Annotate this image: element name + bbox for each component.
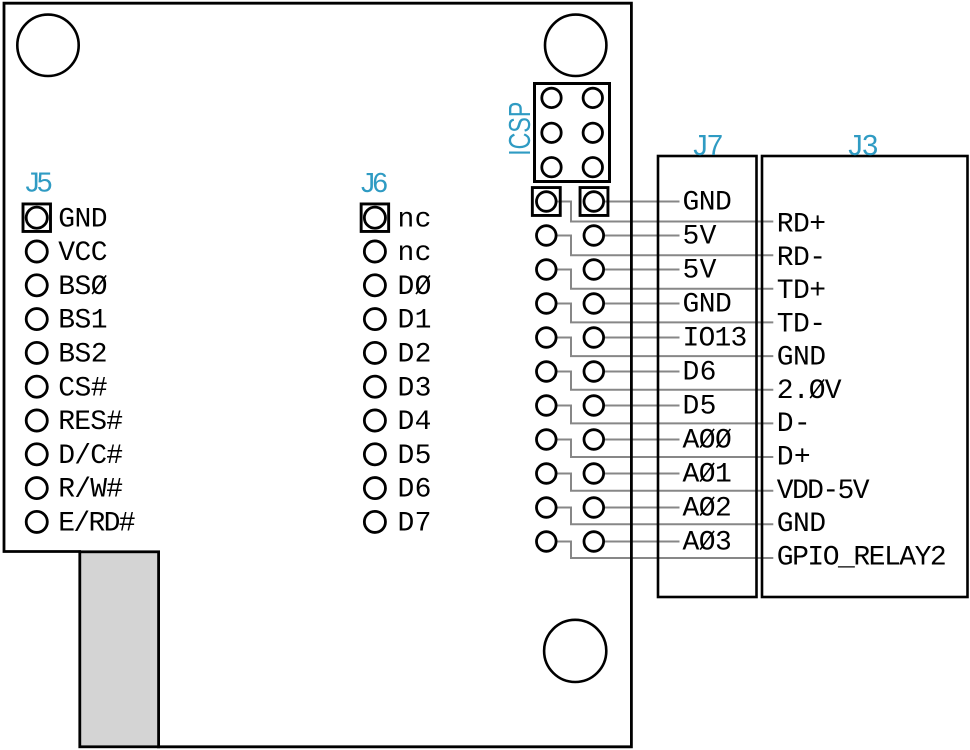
wire header right pin row 1 to J7 net GND — [605, 201, 680, 203]
header right pin row 7 — [584, 396, 604, 416]
J5 pin 5 — [26, 342, 47, 363]
J6 pin 9 — [364, 478, 385, 499]
svg-text:5V: 5V — [683, 221, 717, 252]
svg-text:D5: D5 — [398, 441, 432, 472]
header left pin row 4 — [537, 294, 557, 314]
J5 pin 2 — [26, 241, 47, 262]
svg-text:D+: D+ — [777, 443, 811, 474]
wire header right pin row 4 to J7 net GND — [605, 303, 680, 305]
svg-text:GPIO_RELAY2: GPIO_RELAY2 — [777, 543, 947, 574]
svg-text:GND: GND — [777, 509, 826, 540]
svg-text:D6: D6 — [683, 357, 717, 388]
header left pin row 6 — [537, 362, 557, 382]
J6 pin 3 — [364, 275, 385, 296]
svg-text:D5: D5 — [683, 391, 717, 422]
svg-text:J3: J3 — [848, 130, 878, 162]
svg-text:J5: J5 — [26, 167, 53, 198]
mounting hole top-middle — [545, 15, 606, 76]
wire header left pin row 10 to J3 net GND — [558, 508, 774, 525]
wire header right pin row 11 to J7 net A03 — [605, 541, 680, 543]
svg-text:D1: D1 — [398, 306, 432, 337]
ICSP pin 2 — [583, 88, 602, 107]
wire header left pin row 8 to J3 net D+ — [558, 440, 774, 458]
board edge connector tab — [80, 552, 159, 747]
header left pin row 5 — [537, 328, 557, 348]
wire header left pin row 1 to J3 net RD+ — [558, 202, 774, 222]
wire header right pin row 3 to J7 net 5V — [605, 269, 680, 271]
svg-text:D4: D4 — [398, 407, 432, 438]
svg-text:R/W#: R/W# — [58, 475, 123, 506]
J5 pin 4 — [26, 309, 47, 330]
svg-text:BSØ: BSØ — [58, 272, 107, 303]
J6 pin 7 — [364, 410, 385, 431]
wire header right pin row 9 to J7 net A01 — [605, 473, 680, 475]
header right pin row 4 — [584, 294, 604, 314]
J6 pin 4 — [364, 309, 385, 330]
ICSP pin 5 — [542, 158, 561, 177]
wire header left pin row 5 to J3 net GND — [558, 338, 774, 357]
ICSP pin 3 — [542, 123, 561, 142]
header left pin row 10 — [537, 498, 557, 518]
connector J7 box — [658, 156, 757, 597]
mounting hole top-left — [17, 15, 78, 76]
svg-text:CS#: CS# — [58, 373, 107, 404]
svg-text:5V: 5V — [683, 255, 717, 286]
svg-text:J7: J7 — [693, 130, 723, 162]
J5 pin 3 — [26, 275, 47, 296]
svg-text:GND: GND — [683, 187, 732, 218]
J6 pin 2 — [364, 241, 385, 262]
svg-text:BS2: BS2 — [58, 340, 107, 371]
header right pin row 6 — [584, 362, 604, 382]
mounting hole bottom — [544, 620, 606, 682]
ICSP pin 6 — [583, 158, 602, 177]
wire header left pin row 2 to J3 net RD- — [558, 236, 774, 256]
header right pin row 2 — [584, 226, 604, 246]
svg-text:ICSP: ICSP — [502, 102, 537, 156]
svg-text:DØ: DØ — [398, 272, 432, 303]
connector ICSP outline — [535, 84, 610, 182]
header left pin row 1 — [532, 188, 560, 216]
svg-text:GND: GND — [777, 343, 826, 374]
J6 pin 5 — [364, 342, 385, 363]
wire header left pin row 4 to J3 net TD- — [558, 304, 774, 323]
svg-text:AØ1: AØ1 — [683, 459, 732, 490]
ICSP pin 4 — [583, 123, 602, 142]
wire header right pin row 8 to J7 net A00 — [605, 439, 680, 441]
svg-text:D/C#: D/C# — [58, 441, 123, 472]
connector J3 box — [762, 156, 968, 597]
wire header left pin row 3 to J3 net TD+ — [558, 270, 774, 289]
svg-text:D2: D2 — [398, 340, 432, 371]
J6 pin 1 — [361, 204, 389, 232]
wire header left pin row 6 to J3 net 2.0V — [558, 372, 774, 390]
svg-text:IO13: IO13 — [683, 323, 748, 354]
J6 pin 6 — [364, 376, 385, 397]
J5 pin 10 — [26, 511, 47, 532]
svg-text:E/RD#: E/RD# — [58, 509, 135, 540]
header right pin row 11 — [584, 532, 604, 552]
svg-text:2.ØV: 2.ØV — [777, 376, 842, 407]
svg-text:RES#: RES# — [58, 407, 123, 438]
header left pin row 11 — [537, 532, 557, 552]
header left pin row 9 — [537, 464, 557, 484]
J5 pin 8 — [26, 444, 47, 465]
svg-text:GND: GND — [683, 289, 732, 320]
svg-text:D6: D6 — [398, 475, 432, 506]
wire header left pin row 7 to J3 net D- — [558, 406, 774, 424]
wire header right pin row 5 to J7 net IO13 — [605, 337, 680, 339]
J5 pin 9 — [26, 478, 47, 499]
svg-text:RD+: RD+ — [777, 209, 826, 240]
wire header left pin row 9 to J3 net VDD-5V — [558, 474, 774, 491]
wire header right pin row 7 to J7 net D5 — [605, 405, 680, 407]
svg-text:VCC: VCC — [58, 238, 107, 269]
header right pin row 8 — [584, 430, 604, 450]
header left pin row 3 — [537, 260, 557, 280]
svg-text:GND: GND — [58, 204, 107, 235]
J5 pin 7 — [26, 410, 47, 431]
svg-text:RD-: RD- — [777, 243, 826, 274]
ICSP pin 1 — [542, 88, 561, 107]
svg-text:TD+: TD+ — [777, 276, 826, 307]
svg-text:VDD-5V: VDD-5V — [777, 476, 870, 507]
svg-text:AØ2: AØ2 — [683, 493, 732, 524]
J5 pin 1 — [23, 204, 51, 232]
svg-text:AØØ: AØØ — [683, 425, 732, 456]
header right pin row 5 — [584, 328, 604, 348]
svg-text:BS1: BS1 — [58, 306, 107, 337]
wire header right pin row 10 to J7 net A02 — [605, 507, 680, 509]
svg-text:nc: nc — [398, 238, 432, 269]
header right pin row 3 — [584, 260, 604, 280]
header left pin row 7 — [537, 396, 557, 416]
svg-text:D3: D3 — [398, 373, 432, 404]
J5 pin 6 — [26, 376, 47, 397]
header right pin row 1 — [580, 188, 608, 216]
svg-text:TD-: TD- — [777, 309, 826, 340]
header right pin row 10 — [584, 498, 604, 518]
wire header right pin row 6 to J7 net D6 — [605, 371, 680, 373]
header right pin row 9 — [584, 464, 604, 484]
svg-text:J6: J6 — [361, 167, 388, 198]
board outline — [4, 3, 631, 747]
svg-text:AØ3: AØ3 — [683, 527, 732, 558]
svg-text:nc: nc — [398, 204, 432, 235]
J6 pin 8 — [364, 444, 385, 465]
J6 pin 10 — [364, 511, 385, 532]
svg-text:D-: D- — [777, 409, 811, 440]
header left pin row 2 — [537, 226, 557, 246]
header left pin row 8 — [537, 430, 557, 450]
wire header right pin row 2 to J7 net 5V — [605, 235, 680, 237]
svg-text:D7: D7 — [398, 509, 432, 540]
wire header left pin row 11 to J3 net GPIO_RELAY2 — [558, 542, 774, 559]
